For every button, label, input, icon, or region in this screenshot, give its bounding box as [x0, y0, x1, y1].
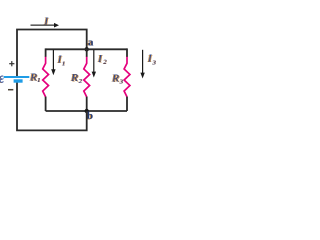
svg-text:a: a	[88, 36, 94, 48]
wire: branch 1 top stub	[45, 48, 47, 57]
node b junction dot	[85, 109, 89, 113]
svg-text:3: 3	[119, 78, 123, 85]
node a junction dot	[85, 47, 89, 51]
battery bottom plate (-, short thick)	[14, 79, 23, 82]
label R2	[69, 72, 83, 85]
wire: bottom bus from branch 1 to branch 3 through node b	[46, 110, 127, 112]
svg-text:b: b	[87, 110, 93, 122]
wire: top bus from branch 1 to branch 3 through node a	[46, 48, 127, 50]
current arrow I2	[92, 50, 96, 78]
wire: branch 1 bottom stub	[45, 97, 47, 111]
wire: branch 3 bottom stub	[126, 97, 128, 111]
battery top plate (+, long)	[4, 76, 30, 78]
node a label	[87, 36, 94, 48]
current arrow I3	[140, 50, 144, 79]
battery - sign	[8, 89, 13, 91]
label I2	[96, 53, 108, 66]
label I (total current)	[42, 15, 50, 28]
battery + sign	[9, 61, 14, 66]
resistor R3	[124, 57, 130, 97]
resistor R1	[43, 57, 49, 97]
svg-text:3: 3	[152, 59, 156, 66]
wire: battery + terminal up, across top, down to node a	[17, 30, 87, 77]
node b label	[86, 110, 93, 122]
wire: branch 2 bottom stub to node b	[86, 97, 88, 111]
current arrow I1	[51, 50, 55, 75]
EMF label (script E, clipped at left edge)	[0, 76, 3, 83]
label I3	[146, 53, 156, 67]
svg-text:1: 1	[62, 60, 65, 67]
wire: branch 2 top stub (node a down)	[86, 49, 88, 57]
resistor R2	[84, 57, 90, 97]
svg-text:1: 1	[37, 77, 40, 84]
wire: node b down, across bottom, up to battery - terminal	[17, 82, 87, 130]
label R3	[110, 72, 123, 85]
svg-text:R: R	[70, 72, 78, 84]
label I1	[56, 54, 66, 68]
wire: branch 3 top stub	[126, 48, 128, 57]
current arrow I (top)	[31, 23, 60, 28]
svg-text:R: R	[111, 72, 119, 84]
label R1	[28, 71, 41, 84]
